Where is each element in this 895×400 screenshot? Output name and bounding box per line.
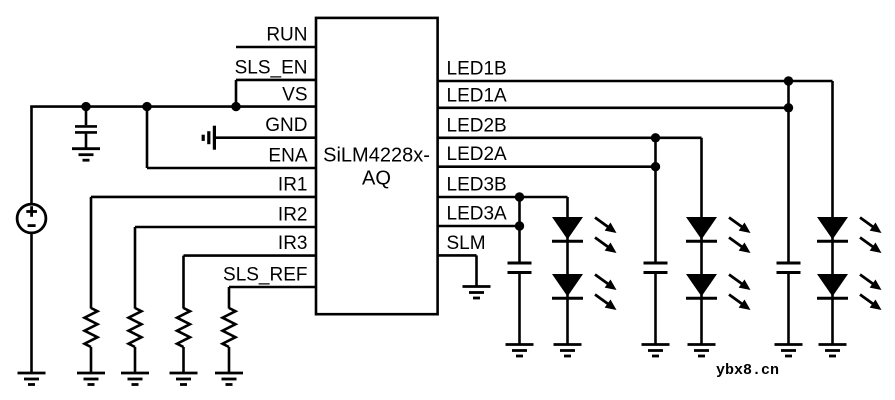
- svg-text:ENA: ENA: [268, 146, 307, 167]
- svg-text:ybx8.cn: ybx8.cn: [716, 362, 779, 379]
- svg-text:LED2A: LED2A: [447, 144, 508, 165]
- svg-text:LED1B: LED1B: [447, 59, 507, 80]
- svg-text:SiLM4228x-: SiLM4228x-: [323, 145, 430, 167]
- svg-text:VS: VS: [282, 85, 307, 106]
- svg-text:GND: GND: [265, 115, 307, 136]
- svg-text:SLM: SLM: [447, 233, 486, 254]
- svg-text:IR2: IR2: [278, 205, 308, 226]
- svg-text:AQ: AQ: [362, 168, 391, 190]
- svg-text:LED1A: LED1A: [447, 85, 508, 106]
- svg-text:RUN: RUN: [266, 25, 307, 46]
- svg-text:SLS_EN: SLS_EN: [235, 57, 308, 78]
- svg-text:IR1: IR1: [278, 174, 308, 195]
- svg-text:LED3A: LED3A: [447, 204, 508, 225]
- svg-text:SLS_REF: SLS_REF: [223, 265, 307, 286]
- svg-text:IR3: IR3: [278, 233, 308, 254]
- svg-text:LED2B: LED2B: [447, 115, 507, 136]
- svg-text:LED3B: LED3B: [447, 175, 507, 196]
